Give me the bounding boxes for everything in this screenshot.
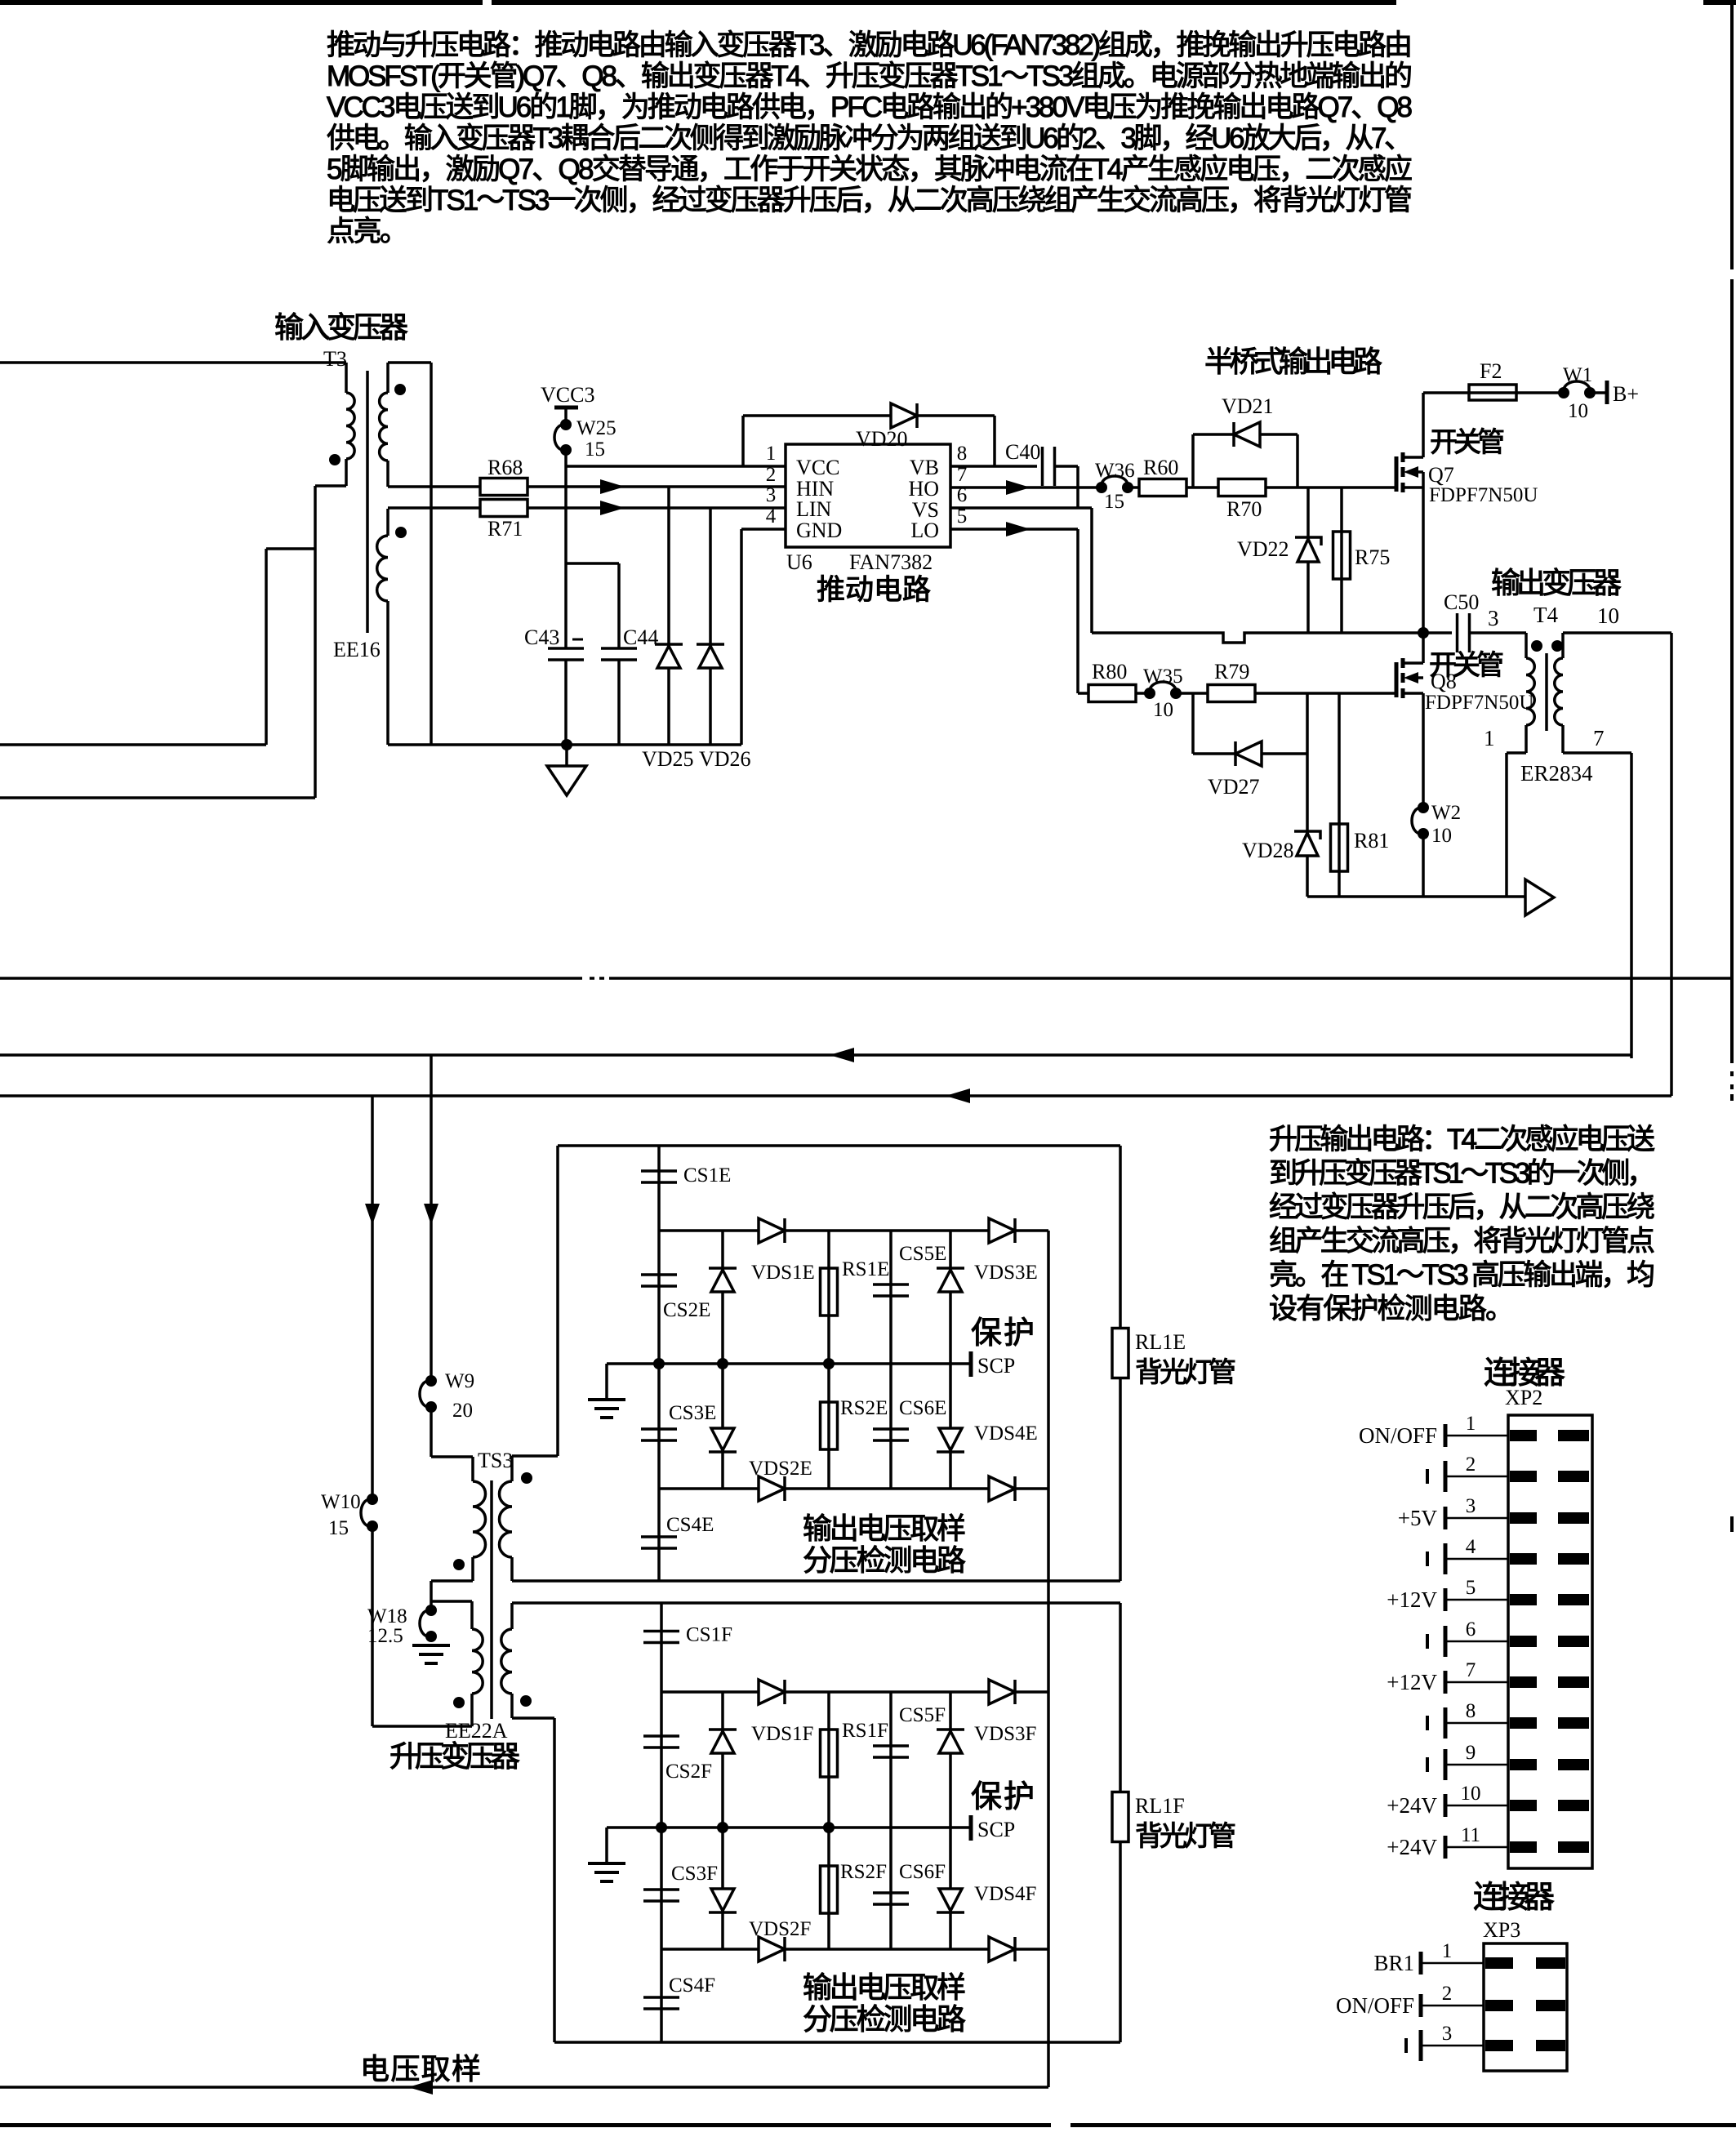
jumper W35 bbox=[1144, 688, 1155, 699]
svg-text:RS1F: RS1F bbox=[842, 1720, 888, 1742]
jumper W1 bbox=[1558, 387, 1569, 398]
svg-text:1: 1 bbox=[766, 443, 777, 465]
transformer T4 primary bbox=[1525, 633, 1528, 658]
XP2 pin 6 bbox=[1445, 1641, 1508, 1643]
svg-text:EE16: EE16 bbox=[333, 638, 381, 661]
page frame top border bbox=[0, 0, 483, 5]
svg-text:VCC3电压送到U6的1脚，为推动电路供电，PFC电路输出的: VCC3电压送到U6的1脚，为推动电路供电，PFC电路输出的+380V电压为推挽… bbox=[327, 91, 1413, 123]
rectifier diode top-right E bbox=[989, 1218, 1015, 1243]
svg-text:3: 3 bbox=[766, 484, 777, 506]
diode VDS1E bbox=[721, 1231, 724, 1364]
wire U6 pin4 GND bbox=[741, 528, 786, 531]
junction dot mid E bbox=[653, 1358, 665, 1369]
svg-text:输出电压取样: 输出电压取样 bbox=[803, 1511, 966, 1545]
svg-text:RS2E: RS2E bbox=[840, 1397, 888, 1419]
svg-text:W2: W2 bbox=[1431, 802, 1461, 824]
XP3 pin 1 bbox=[1421, 1962, 1484, 1965]
wire TS3 bottom left bbox=[372, 1725, 472, 1728]
svg-text:BR1: BR1 bbox=[1373, 1951, 1414, 1975]
svg-text:VD26: VD26 bbox=[699, 747, 751, 771]
resistor R70 bbox=[1218, 479, 1266, 496]
svg-text:C44: C44 bbox=[623, 626, 658, 649]
rectifier diode top-left F bbox=[759, 1680, 785, 1704]
ground below W18 bbox=[412, 1644, 450, 1647]
svg-text:B+: B+ bbox=[1613, 382, 1639, 406]
wire from line2 down to W9 bbox=[430, 1055, 433, 1381]
wire T3 top right to long vertical bbox=[388, 361, 431, 364]
svg-text:R71: R71 bbox=[487, 517, 523, 541]
svg-text:R79: R79 bbox=[1214, 660, 1249, 683]
junction dot RS E bbox=[823, 1358, 835, 1369]
svg-text:RL1F: RL1F bbox=[1135, 1794, 1185, 1818]
svg-text:2: 2 bbox=[1466, 1454, 1476, 1476]
svg-text:10: 10 bbox=[1153, 699, 1173, 721]
svg-text:3: 3 bbox=[1466, 1495, 1476, 1517]
jumper W10 bbox=[367, 1494, 378, 1505]
page frame bottom border bbox=[0, 2123, 1051, 2127]
wire mid sampling F bbox=[607, 1826, 971, 1829]
svg-text:半桥式输出电路: 半桥式输出电路 bbox=[1204, 345, 1382, 378]
svg-text:10: 10 bbox=[1461, 1783, 1481, 1805]
wire branch y672 bbox=[266, 547, 315, 550]
T3 primary polarity dot bbox=[329, 454, 341, 465]
op-amp U6 FAN7382 driver IC bbox=[786, 444, 950, 547]
node SCP E bbox=[969, 1351, 973, 1377]
svg-text:+12V: +12V bbox=[1387, 1670, 1437, 1694]
svg-text:背光灯管: 背光灯管 bbox=[1135, 1821, 1236, 1852]
svg-text:CS6F: CS6F bbox=[899, 1861, 946, 1883]
capacitor CS4F bbox=[660, 1949, 663, 2042]
svg-text:RL1E: RL1E bbox=[1135, 1330, 1186, 1354]
jumper W2 bbox=[1418, 802, 1429, 813]
rectifier diode bottom-left E bbox=[759, 1476, 785, 1501]
svg-text:CS2F: CS2F bbox=[665, 1761, 712, 1783]
svg-text:FAN7382: FAN7382 bbox=[849, 550, 933, 574]
svg-text:+24V: +24V bbox=[1387, 1835, 1437, 1859]
diode VD26 bbox=[709, 508, 712, 745]
svg-text:8: 8 bbox=[957, 443, 968, 465]
svg-text:VDS2F: VDS2F bbox=[749, 1918, 811, 1940]
arrow down feed2 bbox=[365, 1204, 380, 1225]
wire bus line3 y1342 from T4 pin10 bbox=[0, 1094, 1671, 1097]
svg-text:电压送到TS1～TS3一次侧，经过变压器升压后，从二次高压绕: 电压送到TS1～TS3一次侧，经过变压器升压后，从二次高压绕组产生交流高压，将背… bbox=[327, 185, 1413, 216]
T4 polarity dots bbox=[1531, 640, 1542, 652]
svg-text:SCP: SCP bbox=[977, 1818, 1015, 1841]
wire C43 bottom bbox=[564, 660, 568, 745]
arrow HO bbox=[1006, 480, 1030, 495]
svg-text:LIN: LIN bbox=[796, 497, 832, 521]
XP2 pin 1 bbox=[1445, 1435, 1508, 1437]
junction dot VDS1 F bbox=[717, 1822, 728, 1833]
wire TS3 sec upper to E box bbox=[512, 1454, 558, 1458]
svg-text:XP2: XP2 bbox=[1505, 1386, 1542, 1409]
node bridge midpoint dot bbox=[1418, 627, 1429, 639]
svg-text:VCC: VCC bbox=[796, 456, 839, 479]
wire T4 pin10 down bbox=[1563, 631, 1671, 634]
svg-text:ER2834: ER2834 bbox=[1520, 761, 1593, 786]
wire VCC3 down bbox=[564, 407, 568, 425]
wire U6 LO pin5 bbox=[950, 528, 1078, 531]
T3 secondary lower polarity dot bbox=[395, 527, 407, 538]
svg-text:T3: T3 bbox=[323, 347, 347, 371]
capacitor C40 bbox=[1041, 447, 1044, 486]
XP2 pin 11 bbox=[1445, 1846, 1508, 1849]
svg-text:CS1E: CS1E bbox=[683, 1164, 731, 1186]
rectifier diode top-left E bbox=[759, 1218, 785, 1243]
arrow on line3 bbox=[946, 1089, 970, 1103]
svg-text:ON/OFF: ON/OFF bbox=[1359, 1423, 1437, 1448]
backlight tube RL1E bbox=[1119, 1146, 1122, 1329]
diode VD27 bbox=[1191, 693, 1195, 754]
svg-text:VDS1F: VDS1F bbox=[751, 1723, 813, 1745]
jumper W36 bbox=[1096, 482, 1107, 493]
svg-text:输出变压器: 输出变压器 bbox=[1491, 566, 1622, 599]
capacitor CS3E bbox=[657, 1364, 661, 1489]
wire Q8 drain to bridge node bbox=[1422, 633, 1425, 663]
wire box top F bbox=[512, 1601, 1120, 1605]
diode VDS3F bbox=[949, 1692, 952, 1828]
ground XP2 pin 2 bbox=[1444, 1461, 1448, 1492]
svg-text:设有保护检测电路。: 设有保护检测电路。 bbox=[1269, 1293, 1514, 1325]
svg-text:输入变压器: 输入变压器 bbox=[274, 310, 408, 344]
wire U6 pin1 VCC bbox=[566, 465, 786, 468]
wire U6 HO pin7 bbox=[950, 486, 1102, 489]
capacitor CS2E bbox=[657, 1231, 661, 1364]
capacitor CS6E bbox=[889, 1364, 892, 1489]
wire ground bus y912 under T3/C43 bbox=[388, 743, 741, 746]
TS3 secondary lower winding bbox=[510, 1603, 514, 1629]
svg-text:VDS4F: VDS4F bbox=[974, 1883, 1036, 1905]
T3 secondary winding upper bbox=[386, 363, 389, 393]
junction dot VDS1 E bbox=[717, 1358, 728, 1369]
svg-text:CS4F: CS4F bbox=[669, 1974, 715, 1997]
svg-text:+12V: +12V bbox=[1387, 1587, 1437, 1612]
svg-text:CS6E: CS6E bbox=[899, 1397, 946, 1419]
svg-text:20: 20 bbox=[452, 1400, 473, 1422]
resistor RS1F bbox=[827, 1692, 830, 1828]
svg-text:1: 1 bbox=[1466, 1413, 1476, 1435]
page frame right edge line bbox=[1730, 3, 1734, 269]
TS3 primary lower winding bbox=[470, 1601, 474, 1629]
wire Q8 source down bbox=[1422, 693, 1425, 808]
XP3 pin 3 bbox=[1421, 2045, 1484, 2047]
connector XP2 body bbox=[1508, 1415, 1592, 1868]
fuse F2 bbox=[1469, 385, 1516, 400]
svg-text:4: 4 bbox=[1466, 1536, 1476, 1558]
svg-text:供电。输入变压器T3耦合后二次侧得到激励脉冲分为两组送到U6: 供电。输入变压器T3耦合后二次侧得到激励脉冲分为两组送到U6的2、3脚，经U6放… bbox=[327, 122, 1413, 154]
svg-text:CS5F: CS5F bbox=[899, 1704, 946, 1726]
arrow output to TS primaries bbox=[1525, 879, 1554, 915]
rectifier diode bottom-right F bbox=[989, 1937, 1015, 1961]
capacitor C43 bbox=[548, 647, 584, 650]
svg-text:XP3: XP3 bbox=[1483, 1918, 1520, 1942]
svg-text:8: 8 bbox=[1466, 1700, 1476, 1722]
transformer T3 primary winding bbox=[345, 363, 348, 393]
connector XP3 body bbox=[1484, 1943, 1567, 2071]
svg-text:R60: R60 bbox=[1143, 456, 1178, 479]
wire U6 VB pin8 bbox=[950, 465, 1037, 468]
capacitor CS1E bbox=[657, 1146, 661, 1231]
T3 secondary upper polarity dot bbox=[394, 384, 406, 395]
svg-text:C50: C50 bbox=[1444, 590, 1479, 614]
wire left edge bus y912 bbox=[0, 743, 266, 746]
XP2 pin 5 bbox=[1445, 1599, 1508, 1601]
wire inner top E bbox=[659, 1229, 1048, 1232]
svg-text:W35: W35 bbox=[1143, 666, 1183, 688]
wire box bottom F bbox=[554, 2041, 1120, 2044]
wire box top E bbox=[558, 1144, 1120, 1147]
wire box bottom E bbox=[512, 1579, 1120, 1583]
capacitor CS2F bbox=[660, 1692, 663, 1828]
TS3 primary upper winding bbox=[431, 1455, 473, 1458]
T3 core bbox=[366, 371, 369, 633]
XP2 pin 9 bbox=[1445, 1764, 1508, 1766]
svg-text:12.5: 12.5 bbox=[367, 1625, 403, 1647]
svg-text:Q8: Q8 bbox=[1431, 670, 1457, 693]
svg-text:CS1F: CS1F bbox=[686, 1624, 732, 1646]
svg-text:CS2E: CS2E bbox=[663, 1299, 710, 1321]
svg-text:RS1E: RS1E bbox=[842, 1258, 889, 1280]
svg-text:5: 5 bbox=[1466, 1577, 1476, 1599]
svg-text:CS3F: CS3F bbox=[671, 1863, 718, 1885]
capacitor CS5E bbox=[889, 1231, 892, 1364]
svg-text:组产生交流高压，将背光灯灯管点: 组产生交流高压，将背光灯灯管点 bbox=[1269, 1226, 1655, 1258]
wire W25 to VCC pin bbox=[564, 450, 568, 648]
ground XP2 pin 8 bbox=[1444, 1707, 1448, 1739]
svg-text:1: 1 bbox=[1484, 726, 1495, 750]
resistor R81 bbox=[1338, 693, 1341, 897]
arrow HIN bbox=[600, 479, 625, 494]
wire TS3 sec lower bottom to F box bbox=[512, 1716, 554, 1720]
svg-text:GND: GND bbox=[796, 519, 842, 542]
capacitor C44 bbox=[566, 562, 619, 565]
capacitor CS5F bbox=[889, 1692, 892, 1828]
arrow LO bbox=[1006, 522, 1030, 536]
zener VD28 bbox=[1306, 693, 1309, 897]
svg-text:VDS1E: VDS1E bbox=[751, 1262, 815, 1284]
svg-text:推动电路: 推动电路 bbox=[817, 574, 931, 606]
svg-text:保护: 保护 bbox=[971, 1316, 1035, 1351]
svg-text:R81: R81 bbox=[1354, 829, 1389, 853]
wire bus line2 y1292 from T4 pin7 bbox=[0, 1053, 1631, 1057]
svg-text:CS5E: CS5E bbox=[899, 1243, 946, 1265]
ground symbol below bus bbox=[565, 745, 568, 766]
svg-text:保护: 保护 bbox=[971, 1780, 1035, 1814]
svg-text:10: 10 bbox=[1568, 400, 1588, 422]
wire inner top F bbox=[661, 1690, 1048, 1694]
svg-text:VD21: VD21 bbox=[1222, 394, 1274, 418]
svg-text:到升压变压器TS1～TS3的一次侧，: 到升压变压器TS1～TS3的一次侧， bbox=[1269, 1158, 1655, 1190]
XP2 pin 8 bbox=[1445, 1722, 1508, 1725]
transistor Q8 MOSFET bbox=[1395, 662, 1399, 697]
wire bridge bus y775 with hop bbox=[1092, 633, 1423, 643]
svg-text:9: 9 bbox=[1466, 1742, 1476, 1764]
svg-text:7: 7 bbox=[1466, 1659, 1476, 1681]
svg-text:分压检测电路: 分压检测电路 bbox=[803, 2002, 966, 2036]
zener VD22 bbox=[1306, 488, 1310, 633]
diode VDS3E bbox=[949, 1231, 952, 1364]
svg-text:开关管: 开关管 bbox=[1430, 427, 1505, 458]
capacitor CS6F bbox=[889, 1828, 892, 1949]
svg-text:2: 2 bbox=[1442, 1983, 1453, 2005]
TS3 upper primary dot bbox=[453, 1559, 465, 1570]
svg-text:推动与升压电路：推动电路由输入变压器T3、激励电路U6(FA: 推动与升压电路：推动电路由输入变压器T3、激励电路U6(FAN7382)组成，推… bbox=[327, 29, 1413, 61]
svg-text:VD27: VD27 bbox=[1208, 775, 1260, 799]
svg-text:15: 15 bbox=[585, 439, 605, 461]
capacitor CS4E bbox=[657, 1489, 661, 1581]
svg-text:SCP: SCP bbox=[977, 1354, 1015, 1378]
diode VDS4E bbox=[949, 1364, 952, 1489]
svg-text:LO: LO bbox=[910, 519, 939, 542]
resistor R75 bbox=[1340, 488, 1343, 633]
svg-text:VD28: VD28 bbox=[1242, 839, 1294, 862]
wire C40 to VS net bbox=[1055, 465, 1078, 468]
svg-text:VDS2E: VDS2E bbox=[749, 1458, 812, 1480]
wire 电压取样 output bbox=[0, 2086, 1048, 2089]
svg-text:1: 1 bbox=[1442, 1940, 1453, 1962]
svg-text:RS2F: RS2F bbox=[840, 1861, 887, 1883]
rectifier diode bottom-right E bbox=[989, 1476, 1015, 1501]
svg-text:C40: C40 bbox=[1005, 440, 1040, 464]
svg-text:W9: W9 bbox=[445, 1370, 474, 1392]
T3 secondary winding lower bbox=[386, 509, 389, 536]
XP2 pin 2 bbox=[1445, 1476, 1508, 1478]
svg-text:电压取样: 电压取样 bbox=[360, 2052, 481, 2086]
wire mid sampling E bbox=[607, 1362, 971, 1365]
TS3 core bbox=[490, 1480, 493, 1719]
svg-text:MOSFST(开关管)Q7、Q8、输出变压器T4、升压变压器: MOSFST(开关管)Q7、Q8、输出变压器T4、升压变压器TS1～TS3组成。… bbox=[327, 60, 1413, 92]
ground XP2 pin 4 bbox=[1444, 1543, 1448, 1574]
svg-text:W10: W10 bbox=[321, 1491, 361, 1513]
XP2 pin 10 bbox=[1445, 1805, 1508, 1807]
wire Q7 source to bridge node bbox=[1422, 472, 1425, 633]
transformer T4 secondary bbox=[1561, 633, 1565, 658]
resistor R71 bbox=[388, 506, 481, 510]
svg-text:W25: W25 bbox=[576, 417, 617, 439]
svg-text:4: 4 bbox=[766, 505, 777, 528]
svg-text:经过变压器升压后，从二次高压绕: 经过变压器升压后，从二次高压绕 bbox=[1269, 1191, 1655, 1223]
svg-text:+5V: +5V bbox=[1398, 1506, 1438, 1530]
svg-text:Q7: Q7 bbox=[1428, 463, 1454, 487]
svg-text:VD25: VD25 bbox=[642, 747, 694, 771]
svg-text:10: 10 bbox=[1597, 603, 1619, 628]
svg-text:背光灯管: 背光灯管 bbox=[1135, 1357, 1236, 1388]
resistor RS2F bbox=[827, 1828, 830, 1949]
wire left edge bus y977 bbox=[0, 796, 315, 799]
svg-text:TS3: TS3 bbox=[478, 1449, 513, 1472]
svg-text:W18: W18 bbox=[367, 1605, 407, 1627]
svg-text:R75: R75 bbox=[1355, 545, 1390, 569]
T4 core bbox=[1545, 653, 1548, 731]
XP2 pin 3 bbox=[1445, 1517, 1508, 1520]
wire left edge to T3 primary top bbox=[0, 361, 346, 364]
TS3 secondary upper winding bbox=[510, 1456, 514, 1481]
svg-text:6: 6 bbox=[1466, 1618, 1476, 1641]
rectifier diode bottom-left F bbox=[759, 1937, 785, 1961]
svg-text:7: 7 bbox=[1593, 726, 1605, 750]
svg-text:升压输出电路：T4二次感应电压送: 升压输出电路：T4二次感应电压送 bbox=[1269, 1124, 1655, 1155]
capacitor CS1F bbox=[660, 1603, 663, 1692]
arrow LIN bbox=[600, 501, 625, 515]
svg-text:T4: T4 bbox=[1533, 603, 1558, 627]
diode VD20 bootstrap bbox=[743, 414, 995, 417]
svg-text:W36: W36 bbox=[1095, 460, 1135, 482]
svg-text:2: 2 bbox=[766, 464, 777, 486]
svg-text:VDS3E: VDS3E bbox=[974, 1262, 1038, 1284]
resistor R68 bbox=[388, 485, 481, 488]
diode VD21 bbox=[1191, 434, 1195, 488]
wire bus line1 y1198 bbox=[0, 977, 582, 980]
ground XP2 pin 9 bbox=[1444, 1749, 1448, 1780]
resistor R79 bbox=[1208, 685, 1255, 702]
svg-text:3: 3 bbox=[1442, 2023, 1453, 2045]
rectifier diode top-right F bbox=[989, 1680, 1015, 1704]
wire inner bottom F bbox=[661, 1948, 1048, 1951]
svg-text:10: 10 bbox=[1431, 825, 1452, 847]
capacitor C50 bbox=[1456, 613, 1459, 652]
jumper W25 bbox=[560, 419, 572, 430]
jumper W18 bbox=[425, 1605, 437, 1616]
svg-text:3: 3 bbox=[1488, 606, 1499, 630]
junction dot ground bus bbox=[561, 739, 572, 750]
XP3 pin 2 bbox=[1421, 2005, 1484, 2007]
wire from line3 down to W10 bbox=[371, 1096, 374, 1499]
XP2 pin 7 bbox=[1445, 1681, 1508, 1684]
svg-text:U6: U6 bbox=[786, 550, 812, 574]
wire TS3 center tap bbox=[431, 1579, 473, 1583]
XP2 pin 4 bbox=[1445, 1558, 1508, 1560]
junction dot RS F bbox=[823, 1822, 835, 1833]
svg-text:分压检测电路: 分压检测电路 bbox=[803, 1543, 966, 1577]
svg-text:5脚输出，激励Q7、Q8交替导通，工作于开关状态，其脉冲电流: 5脚输出，激励Q7、Q8交替导通，工作于开关状态，其脉冲电流在T4产生感应电压，… bbox=[327, 154, 1413, 185]
svg-text:11: 11 bbox=[1461, 1824, 1480, 1846]
diode VDS4F bbox=[949, 1828, 952, 1949]
svg-text:VDS3F: VDS3F bbox=[974, 1723, 1036, 1745]
svg-text:输出电压取样: 输出电压取样 bbox=[803, 1970, 966, 2004]
svg-text:+24V: +24V bbox=[1387, 1793, 1437, 1818]
svg-text:FDPF7N50U: FDPF7N50U bbox=[1425, 692, 1533, 714]
svg-text:VB: VB bbox=[910, 456, 939, 479]
diode VDS1F bbox=[721, 1692, 724, 1828]
ground mid F bbox=[605, 1828, 608, 1863]
wire bottom of half-bridge bbox=[1307, 895, 1525, 898]
ground XP3 pin 3 bbox=[1419, 2030, 1423, 2061]
jumper W9 bbox=[425, 1375, 437, 1387]
TS3 secondary upper dot bbox=[521, 1472, 532, 1484]
arrow on line2 bbox=[830, 1048, 854, 1062]
svg-text:连接器: 连接器 bbox=[1473, 1881, 1555, 1915]
svg-text:W1: W1 bbox=[1563, 364, 1592, 386]
capacitor CS3F bbox=[660, 1828, 663, 1949]
terminal B+ bbox=[1605, 381, 1609, 404]
svg-text:点亮。: 点亮。 bbox=[327, 216, 408, 247]
svg-text:R68: R68 bbox=[487, 456, 523, 479]
svg-text:FDPF7N50U: FDPF7N50U bbox=[1429, 484, 1538, 506]
svg-text:VD20: VD20 bbox=[856, 427, 908, 451]
diode VDS2E bbox=[721, 1364, 724, 1489]
arrow 电压取样 bbox=[408, 2080, 433, 2095]
svg-text:升压变压器: 升压变压器 bbox=[389, 1739, 520, 1773]
wire U6 VS pin6 bbox=[950, 506, 1092, 510]
arrow down feed1 bbox=[424, 1204, 438, 1225]
svg-text:15: 15 bbox=[328, 1517, 349, 1539]
ground mid E bbox=[605, 1364, 608, 1400]
svg-text:ON/OFF: ON/OFF bbox=[1336, 1993, 1414, 2018]
diode VD25 bbox=[667, 488, 670, 745]
resistor RS1E bbox=[827, 1231, 830, 1364]
wire Q7 drain to B+ bbox=[1422, 393, 1425, 457]
TS3 lower primary dot bbox=[453, 1697, 465, 1708]
